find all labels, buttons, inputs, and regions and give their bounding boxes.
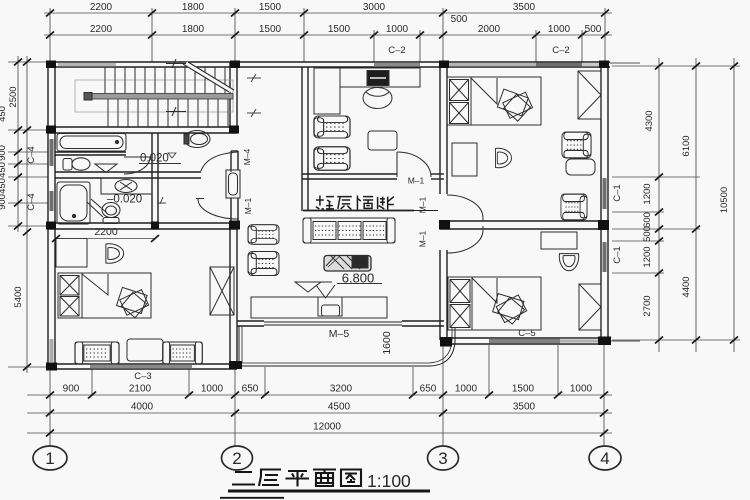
svg-text:1800: 1800 <box>182 24 205 35</box>
svg-text:–0.020: –0.020 <box>107 194 142 206</box>
svg-text:1000: 1000 <box>455 384 478 395</box>
svg-text:C–4: C–4 <box>26 193 37 210</box>
svg-text:1: 1 <box>45 449 54 468</box>
svg-text:650: 650 <box>242 384 259 395</box>
svg-text:M–1: M–1 <box>408 176 425 186</box>
svg-text:1200: 1200 <box>642 246 653 267</box>
svg-text:450: 450 <box>0 106 8 122</box>
svg-text:450: 450 <box>0 178 8 194</box>
svg-text:C–4: C–4 <box>26 146 37 163</box>
svg-text:M–1: M–1 <box>418 196 428 213</box>
svg-text:M–5: M–5 <box>329 328 350 340</box>
svg-text:1600: 1600 <box>381 331 393 355</box>
svg-text:900: 900 <box>63 384 80 395</box>
svg-text:2700: 2700 <box>642 295 653 316</box>
svg-text:M–1: M–1 <box>418 230 428 247</box>
svg-text:C–1: C–1 <box>612 184 623 201</box>
svg-text:1800: 1800 <box>182 2 205 13</box>
svg-text:2500: 2500 <box>8 86 19 107</box>
svg-text:500: 500 <box>642 226 653 242</box>
svg-text:2200: 2200 <box>90 2 113 13</box>
svg-text:1000: 1000 <box>548 24 571 35</box>
svg-text:2: 2 <box>232 449 241 468</box>
svg-text:1000: 1000 <box>570 384 593 395</box>
svg-text:2200: 2200 <box>90 24 113 35</box>
svg-text:600: 600 <box>642 212 653 228</box>
svg-text:1:100: 1:100 <box>367 471 411 491</box>
svg-text:2100: 2100 <box>129 384 152 395</box>
svg-text:500: 500 <box>451 14 468 25</box>
svg-text:500: 500 <box>585 24 602 35</box>
svg-text:4400: 4400 <box>681 276 692 297</box>
svg-text:1000: 1000 <box>386 24 409 35</box>
svg-text:450: 450 <box>0 162 8 178</box>
svg-text:1000: 1000 <box>201 384 224 395</box>
svg-text:2200: 2200 <box>94 226 118 238</box>
svg-text:900: 900 <box>0 145 8 161</box>
svg-text:1200: 1200 <box>642 183 653 204</box>
svg-text:C–3: C–3 <box>134 371 151 382</box>
svg-text:12000: 12000 <box>313 422 341 433</box>
svg-text:C–1: C–1 <box>612 246 623 263</box>
svg-text:0.020: 0.020 <box>140 153 169 165</box>
svg-text:3500: 3500 <box>513 2 536 13</box>
svg-text:900: 900 <box>0 194 8 210</box>
svg-text:650: 650 <box>420 384 437 395</box>
svg-text:5400: 5400 <box>13 286 24 307</box>
svg-text:6100: 6100 <box>681 135 692 156</box>
svg-text:3: 3 <box>438 449 447 468</box>
svg-text:4500: 4500 <box>328 402 351 413</box>
svg-text:1500: 1500 <box>259 24 282 35</box>
svg-text:4: 4 <box>600 449 609 468</box>
svg-text:10500: 10500 <box>719 187 730 213</box>
svg-text:4000: 4000 <box>131 402 154 413</box>
svg-text:3200: 3200 <box>330 384 353 395</box>
svg-text:1500: 1500 <box>512 384 535 395</box>
svg-text:M–4: M–4 <box>242 148 252 165</box>
svg-text:C–2: C–2 <box>552 45 569 56</box>
svg-text:2000: 2000 <box>478 24 501 35</box>
svg-text:C–2: C–2 <box>388 45 405 56</box>
svg-text:4300: 4300 <box>644 110 655 131</box>
svg-text:3000: 3000 <box>363 2 386 13</box>
svg-text:1500: 1500 <box>328 24 351 35</box>
svg-text:3500: 3500 <box>513 402 536 413</box>
svg-text:1500: 1500 <box>259 2 282 13</box>
svg-text:M–1: M–1 <box>243 197 253 214</box>
